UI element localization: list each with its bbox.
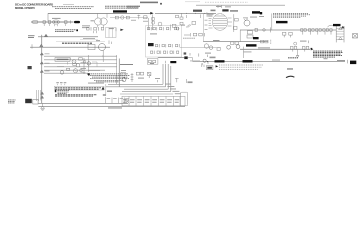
cluster labels [57,62,87,73]
tube pin labels [205,20,208,30]
transistor Q11 [227,45,231,49]
horizontal bus wires feeding regulator cluster [44,56,117,73]
primary row wire y17.6 [110,17,148,19]
top tiny text row [205,1,248,3]
box corner [92,62,97,67]
transistor Q5 [73,69,77,73]
pin labels [45,53,50,71]
row J pairs on right of wire y30 [301,29,332,35]
row I boxes [283,32,293,37]
tick [70,20,72,23]
wire y41.7 [203,41,268,43]
wire y37 [38,36,98,38]
ground symbol [41,106,45,108]
dense band 2 [55,95,97,96]
Q1 vertical lead [102,51,104,63]
small marks under top line [206,5,222,14]
tick x32 [31,44,33,48]
V text bits [56,82,66,83]
bar label top [252,11,260,13]
wire y57.7 into junction [158,57,184,59]
transformer T1 [95,18,108,25]
pin labels [165,84,181,95]
transistor Q13 [204,44,208,48]
capacitor C2 [48,21,51,24]
diode D6 [80,69,83,72]
transistor Q3 [72,60,76,64]
diode D1 (filled label bar) [74,21,80,23]
row4 [150,51,178,54]
connector ladder rows [106,64,173,94]
connector J2 label [28,66,32,69]
note text under filter [55,30,76,32]
wire y49.2 [240,48,310,50]
wire y47.6 left [180,47,221,49]
transistor Q12 [236,45,240,49]
X caps on wire [231,40,269,44]
row1 capacitors [147,27,178,30]
left ladder of tube E [176,13,201,30]
title block [15,3,53,10]
terminal block [350,61,356,65]
small component box below [206,66,213,70]
T mark [175,78,179,82]
bar label B6 [246,44,257,46]
vertical x88 [87,55,89,72]
component legs below wire [44,23,65,26]
box with ticks Z [106,28,117,38]
vertical x297 with arrow [297,49,299,56]
small mark above [198,53,200,56]
transistor Q14 [209,46,213,50]
X caps pair [136,72,143,75]
transistor Q10 top right [244,20,250,26]
row G under tube [184,33,205,36]
node cluster [203,59,206,62]
label bar (TO HV) on top wire [113,10,127,12]
long wire y30 [240,29,336,31]
smudge arc [286,76,294,77]
tube / HV block U1 [212,14,227,31]
bar label B9 [215,60,225,62]
small text block I with tick [55,90,57,92]
AC wires [38,102,128,104]
transistor Q15 [122,78,126,82]
resistor network dotted band [219,65,263,69]
capacitor C1 [43,21,46,24]
component row under top filter (D row) [87,27,117,31]
voltage table [122,92,188,106]
arc lead [328,25,333,27]
notes paragraph H (middle) [88,74,130,82]
note paragraph F (top right) [273,13,310,17]
M pairs on wire y49 [290,46,308,51]
vertical drops to connector [36,90,40,101]
small text right [287,68,293,70]
dark component label [148,43,154,46]
vertical x243 [242,47,244,58]
mark right of table [186,79,188,83]
ground arrow [44,34,47,36]
connector J1 text [28,35,35,38]
long wire y61.6 [193,61,345,63]
transistor Q6 [60,71,64,75]
bar label B5 [276,21,288,23]
wire top loop vertical x48 [47,13,49,21]
arrow [216,65,219,67]
arrow mark [120,29,123,31]
svg-text:MODEL CPS0070: MODEL CPS0070 [15,6,35,10]
regulator box [55,58,70,62]
driver stage B: box [88,44,95,49]
capacitor C3 [65,21,68,24]
diode D9 [294,42,297,45]
bars row above notes [147,59,158,65]
Q1 upper ticks [109,40,112,44]
wire y39.5 [80,39,98,41]
left terminal [184,56,187,59]
small parts in cluster [67,58,85,74]
tube bar label [222,9,228,11]
T2 top bar label [333,24,341,26]
hv unit box outline [145,26,181,57]
labels above line [193,10,202,12]
crystal X1 [353,34,358,38]
PE label under long wire [108,107,122,108]
fuse F1 [33,21,38,24]
transistor Q7 [87,62,90,65]
note text right of filter [82,25,90,28]
AC line input wire y22 [31,21,74,23]
cluster at end of stub [126,99,130,104]
wire stub y103 comps P [106,97,125,103]
comps on wire y30 [255,28,257,31]
S marks [300,41,307,42]
box label HIGH VOLTAGE POWER SUPPLY [56,40,105,42]
transistor Q1 [99,44,106,51]
caution paragraph G (right) [313,51,343,57]
vertical bus ladder x41.8 [41,35,43,104]
AC input label [8,100,16,103]
vertical to bar B5 [271,13,273,30]
arrowhead end of top wire [150,12,153,15]
marks T below wire41 [205,53,211,54]
long vertical x116.5 [116,55,118,84]
wire y13 right segment [155,12,216,14]
wire y47 [30,46,110,48]
connector pin arrows on ladder [40,53,43,98]
note text block B (top middle) [105,6,140,8]
wire top loop horizontal y13 [48,12,151,14]
right of tube column F [233,14,238,32]
hatch marks [186,24,191,27]
comps on y17.6 [115,14,152,30]
small overline [63,3,74,5]
transistor Q4 [76,63,80,67]
line filter L1 [52,20,59,24]
AC connector P1 [25,99,38,104]
tick [102,55,104,57]
bar label B10 [243,60,253,62]
marks Y [94,31,97,34]
N boxes below Q10 [247,31,253,38]
tube labels [211,10,216,12]
note text block A (above input filter) [52,7,94,9]
gray label row [183,37,195,39]
triangle right [341,26,345,28]
wire top y5 [196,4,285,6]
small label row [288,57,298,59]
wire y70.5 stub [88,70,100,72]
label PRIMARY (top, left of long line) [140,2,162,5]
dense band 1 [54,86,104,90]
row3 [155,44,179,47]
bar label B11 [170,61,176,63]
flyback transformer T2 [336,26,344,42]
hv box inner parts [152,18,176,28]
connector arrow [40,44,43,46]
diode D5 [83,60,86,63]
bottom middle cluster O [118,59,120,87]
label L1 [52,18,61,19]
black tick left of paragraph [260,12,262,14]
table cell text [123,99,179,102]
row2 marks [150,33,157,34]
